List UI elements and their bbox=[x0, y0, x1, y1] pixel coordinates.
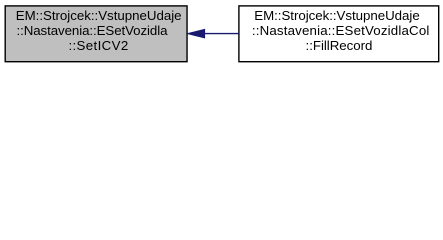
node Node1 label line 3: ::SetICV2 bbox=[68, 38, 128, 53]
call-graph diagram canvas bbox=[0, 0, 443, 67]
edge Node2 -> Node1 wire line (midnightblue) bbox=[205, 33, 239, 35]
node Node1 box: EM::Strojcek::VstupneUdaje::Nastavenia::ESetVozidla::SetICV2 (current node, grey fill) bbox=[5, 6, 187, 62]
node Node1 label line 2: ::Nastavenia::ESetVozidla bbox=[17, 23, 169, 38]
node Node2 label line 3: ::FillRecord bbox=[306, 38, 373, 53]
node Node2 label line 1: EM::Strojcek::VstupneUdaje bbox=[254, 8, 420, 23]
svg-text:::Nastavenia::ESetVozidla: ::Nastavenia::ESetVozidla bbox=[17, 23, 169, 38]
svg-text:EM::Strojcek::VstupneUdaje: EM::Strojcek::VstupneUdaje bbox=[254, 8, 420, 23]
svg-text:::SetICV2: ::SetICV2 bbox=[68, 38, 128, 53]
node Node2 label line 2: ::Nastavenia::ESetVozidlaCol bbox=[252, 23, 430, 38]
svg-text:::FillRecord: ::FillRecord bbox=[306, 38, 373, 53]
edge Node2 -> Node1 arrowhead (midnightblue) bbox=[188, 29, 205, 37]
svg-text:EM::Strojcek::VstupneUdaje: EM::Strojcek::VstupneUdaje bbox=[16, 8, 182, 23]
svg-text:::Nastavenia::ESetVozidlaCol: ::Nastavenia::ESetVozidlaCol bbox=[252, 23, 430, 38]
node Node2 box: EM::Strojcek::VstupneUdaje::Nastavenia::ESetVozidlaCol::FillRecord (white fill) bbox=[239, 6, 439, 62]
node Node1 label line 1: EM::Strojcek::VstupneUdaje bbox=[16, 8, 182, 23]
